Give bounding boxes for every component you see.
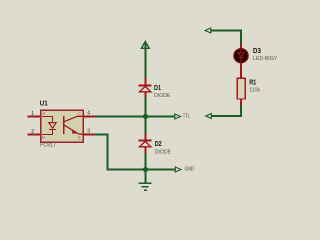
svg-text:LED-BIGY: LED-BIGY xyxy=(253,56,278,62)
terminal TTL xyxy=(175,114,181,119)
junction GND node xyxy=(143,167,148,172)
R1 bottom pin xyxy=(240,99,242,106)
svg-text:D1: D1 xyxy=(154,83,161,92)
wire D1 to junction xyxy=(145,98,147,118)
wire top-right L xyxy=(211,31,241,45)
ground symbol xyxy=(139,170,152,191)
svg-text:TTL: TTL xyxy=(183,113,190,119)
diode D1 xyxy=(139,78,152,98)
pin 2 xyxy=(28,134,42,136)
right circuit: bottom terminal arrow (left pointing) xyxy=(206,114,212,119)
pin 4 xyxy=(83,116,95,118)
wire pin3 corner to GND row xyxy=(96,135,176,170)
svg-text:E: E xyxy=(78,136,81,141)
right circuit: top terminal arrow (left pointing) xyxy=(205,28,211,33)
svg-text:A: A xyxy=(42,111,45,116)
junction TTL node xyxy=(143,114,148,119)
resistor R1 xyxy=(237,78,245,99)
svg-text:2: 2 xyxy=(31,129,34,135)
op-coupler U1 body xyxy=(41,110,84,142)
wire bottom-right L xyxy=(211,106,241,117)
wire LED to R1 (pins) xyxy=(240,63,242,79)
svg-text:D2: D2 xyxy=(155,139,162,148)
internal LED of U1 xyxy=(42,117,56,135)
svg-text:1: 1 xyxy=(31,111,34,117)
emitter arrowhead of U1 xyxy=(72,129,77,134)
svg-text:U1: U1 xyxy=(40,98,48,107)
svg-text:DIODE: DIODE xyxy=(154,93,171,99)
svg-text:4: 4 xyxy=(87,111,90,117)
svg-text:D3: D3 xyxy=(253,46,261,55)
svg-text:3: 3 xyxy=(87,129,90,135)
internal phototransistor of U1 xyxy=(64,116,83,134)
wire D2 to GND junction xyxy=(145,153,147,170)
pin 1 xyxy=(28,116,42,118)
pin 3 xyxy=(83,134,96,136)
svg-text:110k: 110k xyxy=(249,88,260,94)
LED D3 xyxy=(240,44,242,49)
diode D2 xyxy=(139,134,152,154)
svg-text:R1: R1 xyxy=(249,78,256,87)
svg-text:GND: GND xyxy=(185,167,195,173)
svg-text:C: C xyxy=(78,111,81,116)
wire top arrow to D1 xyxy=(145,43,147,81)
wire pin4 to TTL xyxy=(95,116,175,118)
svg-text:DIODE: DIODE xyxy=(155,149,172,155)
power terminal arrow top xyxy=(141,41,149,48)
terminal GND xyxy=(175,167,181,172)
U1 pin letters xyxy=(42,111,81,141)
svg-text:K: K xyxy=(42,135,45,140)
wire junction to D2 xyxy=(145,117,147,135)
svg-text:PC817: PC817 xyxy=(40,143,56,149)
